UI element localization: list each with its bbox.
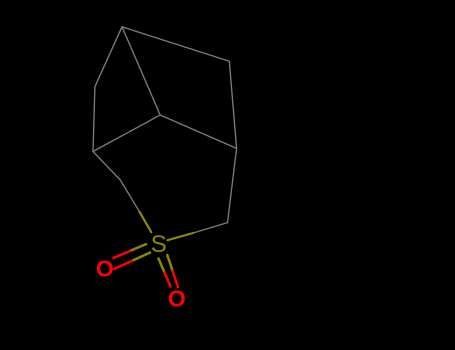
svg-text:O: O: [168, 286, 186, 312]
svg-text:O: O: [96, 256, 114, 282]
svg-text:S: S: [151, 231, 167, 258]
